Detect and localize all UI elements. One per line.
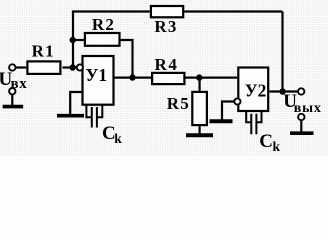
- input ground terminal: [9, 88, 15, 94]
- node R4 / R5 junction: [196, 74, 202, 80]
- resistor R5: [167, 92, 207, 125]
- ground output: [290, 131, 314, 135]
- wire top feedback left segment: [73, 12, 150, 13]
- svg-text:R4: R4: [155, 55, 179, 74]
- svg-text:R1: R1: [32, 42, 55, 61]
- svg-text:R2: R2: [92, 15, 115, 34]
- wire U1 second input to ground: [70, 92, 81, 115]
- ground R5: [186, 133, 213, 137]
- svg-text:R3: R3: [154, 17, 177, 36]
- node U1 output junction: [129, 74, 135, 80]
- wire R5 bottom lead: [199, 126, 201, 134]
- svg-text:k: k: [273, 139, 281, 154]
- wire left vertical from top to R1 node: [72, 12, 74, 68]
- wire R2 right lead down to U1 output: [121, 40, 133, 78]
- output ground terminal: [298, 114, 304, 120]
- node R1 / U1 input junction: [70, 64, 76, 70]
- wire output ground terminal lead: [300, 120, 302, 132]
- svg-text:У1: У1: [86, 65, 108, 85]
- node R2 tap junction: [70, 37, 76, 43]
- svg-text:C: C: [259, 131, 273, 152]
- wire right vertical feedback down to output node: [281, 12, 283, 92]
- wire U2 output to terminal: [269, 90, 298, 92]
- svg-text:вых: вых: [294, 101, 322, 116]
- resistor R1: [27, 42, 60, 74]
- op-amp U2: [238, 68, 268, 112]
- resistor R3: [151, 6, 183, 36]
- wire R4 to U2 input: [186, 76, 238, 78]
- svg-text:вх: вх: [11, 76, 28, 92]
- op-amp U1 inverting input circle: [77, 64, 83, 70]
- wire input ground terminal lead: [11, 94, 13, 106]
- capacitor Ck of U2: [246, 111, 280, 154]
- svg-text:k: k: [114, 131, 122, 146]
- resistor R4: [152, 55, 184, 84]
- resistor R2: [85, 15, 120, 46]
- wire R1 to U1 input: [63, 66, 78, 68]
- wire R5 top lead: [199, 78, 201, 91]
- label Uvx: [0, 69, 27, 92]
- ground input: [3, 105, 24, 109]
- label Uvyx: [283, 91, 322, 116]
- node output feedback junction: [279, 88, 285, 94]
- ground U2 input: [210, 119, 233, 123]
- wire R2 left lead: [72, 39, 84, 41]
- wire input terminal to R1: [15, 66, 26, 68]
- output terminal Uvyx: [298, 88, 304, 94]
- wire U2 second input to ground: [222, 102, 234, 121]
- ground U1 input: [57, 114, 84, 118]
- op-amp U1: [83, 56, 114, 105]
- wire top feedback right segment: [184, 10, 282, 12]
- capacitor Ck of U1: [86, 105, 122, 146]
- op-amp U2 inverting input circle: [234, 98, 240, 104]
- input terminal Uvx: [9, 64, 15, 70]
- svg-text:У2: У2: [245, 81, 267, 101]
- wire U1 output to R4: [115, 76, 151, 78]
- svg-text:R5: R5: [167, 94, 190, 113]
